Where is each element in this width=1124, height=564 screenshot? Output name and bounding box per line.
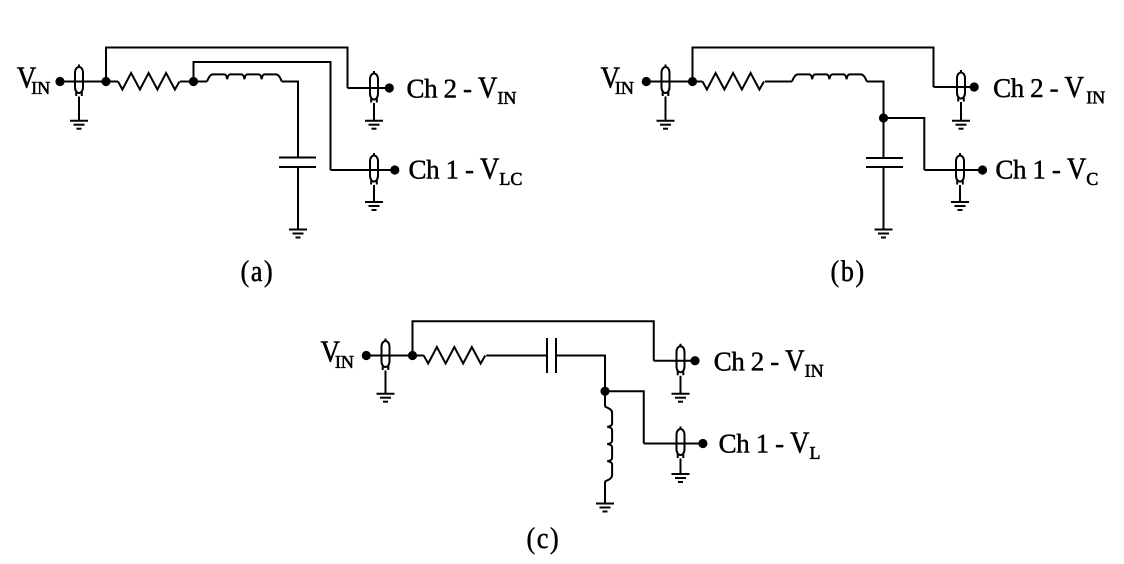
probe P2 Ch2 (a) xyxy=(370,71,378,103)
wire R to C (c) xyxy=(486,355,547,357)
probe P1 V_IN (c) xyxy=(382,339,390,371)
probe P3 Ch1 (b) xyxy=(956,153,964,185)
wire Ch1 feed (c) xyxy=(644,443,703,445)
ground Ch2 probe (c) xyxy=(672,394,690,402)
wire probe ground lead (c) xyxy=(385,371,387,394)
node Ch1 dot (c) xyxy=(698,439,707,448)
wire Ch2 feed (a) xyxy=(348,87,390,89)
probe P3 Ch1 (a) xyxy=(370,153,378,185)
label Ch 2 - V_IN (c) xyxy=(715,350,823,376)
label (b) xyxy=(832,260,863,287)
node Ch1 dot (b) xyxy=(978,165,987,174)
wire node B to inductor (c) xyxy=(604,391,606,406)
node input dot (a) xyxy=(55,77,64,86)
label V_IN (a) xyxy=(17,68,50,94)
ground Ch1 probe (c) xyxy=(672,474,690,482)
node Ch1 dot (a) xyxy=(390,165,399,174)
ground Ch2 probe (b) xyxy=(952,121,970,129)
wire L to node B (b) xyxy=(867,82,884,119)
node A junction dot (b) xyxy=(688,77,697,86)
wire Ch2 probe ground lead (b) xyxy=(960,102,962,121)
ground input probe (c) xyxy=(377,394,395,402)
wire Ch2 feed (b) xyxy=(934,86,975,88)
wire input net (a) xyxy=(56,81,118,83)
node A junction dot (c) xyxy=(408,351,417,360)
wire capacitor to ground (a) xyxy=(297,167,299,230)
probe P1 V_IN (a) xyxy=(75,65,83,97)
ground inductor (c) xyxy=(596,504,614,512)
probe P2 Ch2 (c) xyxy=(677,344,685,376)
node B junction dot (a) xyxy=(189,77,198,86)
wire Ch2 probe ground lead (c) xyxy=(680,376,682,394)
ground capacitor (a) xyxy=(289,230,307,238)
wire node A to top (a) xyxy=(106,48,348,89)
resistor R (a) xyxy=(118,73,180,90)
label (c) xyxy=(528,527,558,554)
wire Ch1 probe ground lead (a) xyxy=(373,185,375,202)
wire Ch1 probe ground lead (c) xyxy=(680,459,682,475)
wire R to L (b) xyxy=(765,81,792,83)
capacitor C (c) xyxy=(547,338,556,373)
ground Ch1 probe (a) xyxy=(365,202,383,210)
wire probe ground lead (b) xyxy=(665,97,667,121)
wire probe ground lead (a) xyxy=(78,97,80,121)
wire input net (b) xyxy=(643,81,703,83)
wire L to capacitor (a) xyxy=(282,82,298,158)
wire Ch2 feed (c) xyxy=(654,360,695,362)
label V_IN (c) xyxy=(321,342,354,368)
inductor L (b) xyxy=(792,74,867,81)
wire node A to top (c) xyxy=(413,321,654,361)
probe P3 Ch1 (c) xyxy=(677,427,685,459)
wire inductor to ground (c) xyxy=(604,481,606,503)
wire Ch1 feed (b) xyxy=(924,169,982,171)
node input dot (b) xyxy=(642,77,651,86)
node Ch2 dot (a) xyxy=(385,83,394,92)
label Ch 1 - V_LC (a) xyxy=(410,159,522,186)
wire Ch2 probe ground lead (a) xyxy=(373,103,375,121)
wire node B to Ch1 tap (c) xyxy=(605,391,644,443)
ground capacitor (b) xyxy=(875,230,893,238)
capacitor C (a) xyxy=(279,158,316,168)
ground input probe (a) xyxy=(70,121,88,129)
ground Ch2 probe (a) xyxy=(365,121,383,129)
inductor L (a) xyxy=(207,74,282,81)
label (a) xyxy=(242,260,272,287)
inductor L (c) xyxy=(605,407,612,482)
probe P1 V_IN (b) xyxy=(662,65,670,97)
wire node B to capacitor (b) xyxy=(883,118,885,158)
node A junction dot (a) xyxy=(101,77,110,86)
label V_IN (b) xyxy=(601,68,634,94)
wire node A to top (b) xyxy=(693,48,934,88)
resistor R (c) xyxy=(424,347,486,364)
wire Ch1 feed (a) xyxy=(331,169,395,171)
ground Ch1 probe (b) xyxy=(951,202,969,210)
wire Ch1 probe ground lead (b) xyxy=(959,185,961,202)
label Ch 1 - V_L (c) xyxy=(720,433,820,459)
label Ch 1 - V_C (b) xyxy=(997,159,1098,186)
wire capacitor to ground (b) xyxy=(883,167,885,230)
node Ch2 dot (b) xyxy=(970,82,979,91)
wire C to node B (c) xyxy=(556,356,605,392)
node input dot (c) xyxy=(362,351,371,360)
node B junction dot (b) xyxy=(879,113,888,122)
ground input probe (b) xyxy=(657,121,675,129)
resistor R (b) xyxy=(703,73,765,90)
wire node B to Ch1 tap (b) xyxy=(884,118,925,170)
probe P2 Ch2 (b) xyxy=(957,70,965,102)
node Ch2 dot (c) xyxy=(690,356,699,365)
label Ch 2 - V_IN (b) xyxy=(994,77,1105,103)
capacitor C (b) xyxy=(866,158,903,167)
node B junction dot (c) xyxy=(600,387,609,396)
wire input net (c) xyxy=(362,355,424,357)
wire R to node B (a) xyxy=(180,81,207,83)
label Ch 2 - V_IN (a) xyxy=(408,78,516,104)
wire node B to Ch1 tap (a) xyxy=(194,62,331,170)
